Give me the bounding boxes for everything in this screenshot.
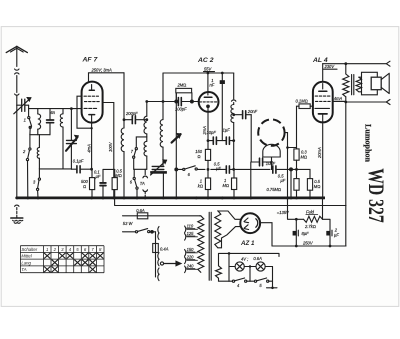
antenna (6, 46, 27, 66)
resistor 2.7kOhm field coil (Feld) (296, 209, 322, 229)
svg-text:100pF: 100pF (175, 107, 187, 112)
wire heater rail top (219, 253, 280, 265)
capacitor 0.1uF (73, 159, 92, 173)
svg-text:6n: 6n (51, 110, 56, 115)
switch 5 (250, 278, 273, 288)
coil L1 (antenna coil) (38, 109, 41, 135)
wire tank bottom link y=168.9 (39, 168, 71, 170)
capacitor 2uF electrolytic (323, 219, 340, 246)
svg-text:240: 240 (186, 264, 195, 269)
label 230V underlined (324, 64, 338, 69)
resistor 1 kOhm (198, 178, 211, 198)
svg-text:150: 150 (187, 247, 195, 252)
capacitor 10pF (207, 130, 226, 144)
coil L7 (oscillator coil) (160, 120, 163, 148)
svg-text:kΩ: kΩ (198, 183, 203, 188)
svg-text:4V ;: 4V ; (241, 257, 248, 262)
svg-text:0.1MΩ: 0.1MΩ (296, 99, 308, 104)
svg-text:Schalter: Schalter (21, 247, 37, 252)
svg-text:53 W: 53 W (123, 221, 134, 226)
switch 6 (130, 169, 138, 197)
voltage selector plug arrow (160, 261, 181, 266)
speaker cone (381, 73, 389, 93)
svg-text:55V: 55V (204, 67, 213, 72)
wire grid rail y=108.6 (29, 108, 82, 110)
svg-text:µF: µF (334, 233, 339, 238)
svg-text:230V: 230V (324, 64, 336, 69)
wire lamp verticals (250, 267, 277, 288)
svg-text:0.75MΩ: 0.75MΩ (267, 187, 282, 192)
tube AZ1 rectifier (240, 213, 260, 233)
svg-text:Ω: Ω (197, 154, 200, 159)
svg-text:µF: µF (96, 174, 101, 179)
coil L8 (feedback coil) (231, 105, 234, 123)
primary tap forks with labels (185, 224, 198, 233)
wire lamp branch left (228, 253, 230, 281)
fuse 0.4A (153, 244, 169, 253)
wire segment y=169.4 (103, 168, 115, 170)
capacitor 0.5uF coupling #1 (214, 161, 270, 173)
coil L4 (RF choke) (121, 128, 124, 152)
wire corner down to AF line (270, 162, 272, 169)
wire antenna line down to chassis bus (16, 105, 18, 198)
svg-text:1: 1 (24, 118, 26, 123)
svg-text:Ω: Ω (83, 184, 86, 189)
svg-text:2MΩ: 2MΩ (177, 83, 187, 88)
svg-text:Feld: Feld (306, 209, 315, 214)
svg-text:0.6A: 0.6A (136, 208, 145, 213)
wire spare ground drop (250, 162, 252, 198)
svg-text:4mA: 4mA (86, 144, 91, 153)
chassis ground bus (17, 197, 325, 200)
wire AC2 cathode down (207, 112, 209, 150)
capacitor 1nF anode (block) (210, 73, 225, 141)
resistor 0.3 MOhm (294, 148, 308, 170)
terminal fork top (386, 61, 390, 66)
svg-text:AL 4: AL 4 (312, 57, 328, 64)
svg-text:250V; 3mA: 250V; 3mA (91, 67, 112, 72)
svg-text:125: 125 (187, 231, 195, 236)
svg-text:Lang: Lang (21, 260, 31, 265)
svg-text:MΩ: MΩ (115, 173, 122, 178)
resistor 2 MOhm grid leak (176, 83, 194, 103)
svg-text:µF: µF (216, 166, 221, 171)
svg-text:MΩ: MΩ (314, 184, 321, 189)
detector tube base dome (263, 144, 280, 157)
svg-text:MΩ: MΩ (301, 154, 308, 159)
wire speaker bottom rail y=102 (333, 100, 387, 103)
terminal fork bottom (386, 100, 390, 105)
wire AZ1 cathode to 250V rail (260, 223, 272, 246)
switch position table (20, 246, 104, 273)
capacitor 6nF coupling (47, 109, 56, 135)
voltage selector chain (156, 227, 160, 281)
svg-text:TA: TA (21, 267, 26, 272)
wire AZ1 anode feeds from HV winding (218, 211, 241, 219)
wire AF7 anode to 250V rail (89, 73, 125, 83)
transformer core (352, 75, 354, 95)
node B junction blob (289, 167, 293, 171)
AZ1 internal diode marks (244, 218, 258, 230)
wire AF7 screen to 100V line (103, 103, 114, 198)
transformer primary (output) (343, 64, 349, 102)
svg-text:1µF: 1µF (223, 128, 231, 133)
wire oscillator feedback x=233.7 (232, 73, 236, 105)
capacitor 1uF coupling (223, 128, 234, 145)
wire AF7 grid1 AGC link (77, 96, 92, 128)
wire AF7 cathode network y=169.2 (71, 168, 76, 170)
svg-text:4mA: 4mA (334, 96, 343, 101)
svg-text:100V: 100V (108, 141, 113, 152)
wire segment y=169.3 (134, 168, 147, 170)
switch 3 (33, 169, 41, 198)
svg-text:MΩ: MΩ (223, 183, 230, 188)
wire AL4 screen y=101.4 (333, 100, 346, 102)
tube duo-diode detector (258, 119, 284, 145)
svg-text:µF: µF (280, 178, 285, 183)
svg-text:Lumophon: Lumophon (364, 124, 374, 162)
resistor 0.75 MOhm (267, 169, 300, 197)
resistor 0.5 MOhm volume (307, 179, 320, 198)
transformer heater winding (216, 266, 222, 278)
capacitor 200pF (124, 111, 147, 124)
svg-text:8µF: 8µF (302, 231, 310, 236)
wire 250V dropper line x=124 (123, 73, 125, 128)
tube AL4 envelope (313, 82, 333, 123)
switch 8 (pickup switch) (183, 166, 205, 177)
ground symbol (11, 205, 23, 223)
switch 2 (22, 135, 31, 198)
wire 250V rail (272, 245, 346, 247)
wire AL4 cathode down (322, 122, 324, 198)
switch mains on/off (123, 229, 156, 234)
AF7 internal electrodes (84, 85, 100, 123)
resistor 150 Ohm (195, 149, 210, 178)
transformer core laminations (209, 212, 211, 280)
table X marks (44, 253, 103, 272)
wire to volume pot (297, 169, 311, 178)
svg-text:AC 2: AC 2 (197, 57, 214, 64)
svg-text:TA: TA (140, 181, 145, 186)
svg-text:Mittel: Mittel (21, 254, 32, 259)
wire AF7 cathode down (91, 122, 93, 169)
capacitor 10nF detector (251, 158, 275, 166)
svg-text:0.4A: 0.4A (160, 246, 169, 251)
wire oscillator rail x=163 (162, 73, 164, 120)
transformer secondary / voice coil (356, 77, 361, 92)
node grid feed dot (70, 107, 73, 110)
capacitor 8uF electrolytic (293, 219, 310, 246)
wire grid line y=101.5 (147, 101, 177, 103)
wire B+ feed x=345.8 (345, 102, 347, 246)
pilot lamp 2 (244, 256, 272, 271)
variable tuning capacitor gang 2 (151, 160, 167, 175)
tube AF7 envelope (82, 82, 103, 123)
wire detector input x=251.2 (250, 115, 252, 162)
wire AF line y=169.4 (176, 168, 183, 170)
svg-text:220: 220 (186, 255, 195, 260)
tuning arrow (padding trimmer) (172, 93, 181, 198)
svg-text:200pF: 200pF (125, 111, 138, 116)
svg-text:250V: 250V (302, 241, 314, 246)
speaker magnet pole (371, 77, 381, 90)
AL4 internals (315, 84, 331, 123)
svg-text:nF: nF (210, 83, 215, 88)
terminals TA (phono input) (140, 169, 148, 197)
wire AL4 anode to rail (322, 64, 324, 82)
wire cathode coupling y=140.6 (208, 140, 212, 142)
svg-text:AZ 1: AZ 1 (240, 240, 255, 247)
svg-text:WD 327: WD 327 (364, 168, 389, 223)
wire heater winding bottom (219, 278, 230, 281)
transformer primary winding (198, 216, 204, 272)
svg-text:0.6A: 0.6A (253, 256, 262, 261)
resistor 0.1 MOhm grid stopper (296, 99, 313, 149)
resistor 0.5 MOhm (112, 169, 123, 198)
svg-text:0.1µF: 0.1µF (73, 159, 84, 164)
svg-text:20mA: 20mA (317, 147, 322, 159)
coil L2 (long-wave coil) (37, 135, 39, 169)
wire 20nF tap (234, 114, 242, 116)
wire screen feed x=322.5 (322, 198, 324, 219)
svg-text:AF 7: AF 7 (82, 57, 99, 64)
AC2 internals (199, 73, 217, 112)
svg-text:2.7kΩ: 2.7kΩ (304, 224, 316, 229)
variable antenna trimmer capacitor (14, 98, 31, 114)
pilot lamp 1 (4V 0.6A) (229, 257, 248, 272)
wire link y=134.7 (30, 134, 50, 136)
wire anode rail AC2 y=73 (163, 72, 234, 74)
coil L3 (wave-band coil) (60, 109, 63, 169)
resistor 1 MOhm (223, 169, 237, 197)
antenna lead-in with break gaps (15, 69, 19, 105)
coil L5 (IF/coupling coil top) (144, 102, 147, 142)
svg-text:10pF: 10pF (207, 130, 217, 135)
capacitor 0.5uF coupling #2 (273, 166, 297, 183)
variable tuning capacitor gang 1 (66, 109, 78, 170)
svg-text:110: 110 (187, 224, 194, 229)
wire =135V tap (288, 198, 297, 219)
capacitor 0.1uF cathode bypass (block) (94, 169, 106, 197)
switch 7 (131, 137, 147, 169)
wire AF7 grid feed (81, 108, 83, 110)
capacitor 20nF (243, 109, 258, 119)
coil L6 (coupling coil bottom) (144, 141, 147, 169)
wire mains section rail y=205.5 (115, 198, 346, 206)
tube AC2 envelope (199, 92, 219, 112)
svg-text:20nF: 20nF (247, 109, 258, 114)
fuse 0.6A mains (123, 208, 200, 219)
speaker frame (362, 72, 378, 95)
resistor 500 Ohm cathode (81, 169, 95, 198)
capacitor 100pF grid (175, 98, 187, 112)
switch 4 (229, 278, 250, 288)
transformer HV secondary (215, 211, 221, 248)
wire detector output right side (285, 133, 288, 198)
switch 1 (24, 109, 32, 129)
wire antenna node to coil tops (28, 105, 30, 108)
wire output rail y=63.7 (323, 63, 387, 65)
grounded shield bar (150, 171, 167, 174)
